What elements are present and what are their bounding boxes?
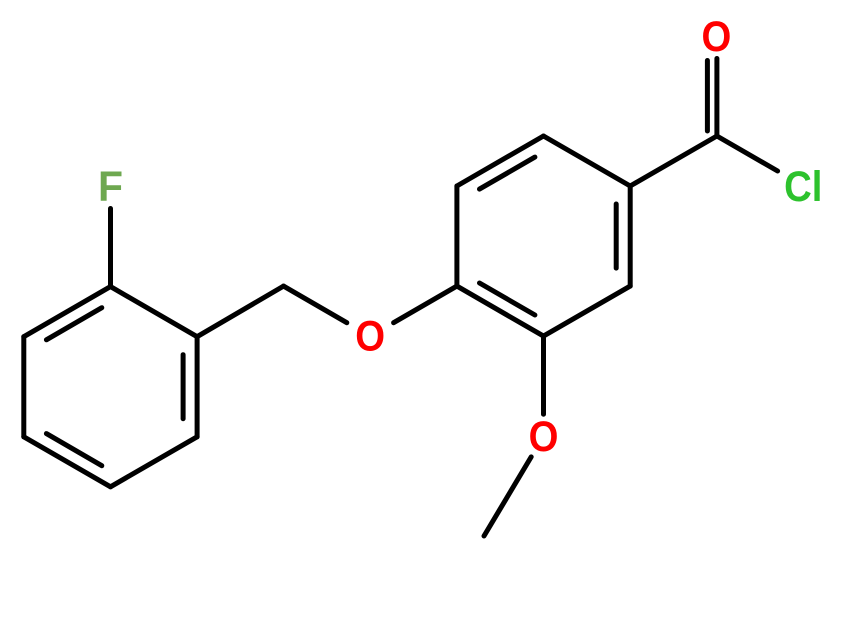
bond C2'-F: [108, 209, 113, 287]
bond C1-carbonyl C: [630, 136, 717, 186]
svg-text:Cl: Cl: [784, 164, 822, 211]
bond C=O1 second line of double bond: [705, 61, 710, 132]
bond C5-C6: [457, 136, 544, 186]
bond O3-CH3 (methyl of methoxy): [484, 457, 531, 536]
bond C3=C4 inner double line: [480, 283, 535, 315]
bond C5'-C6' (left ring, bottom-right edge): [111, 437, 198, 487]
bond C6'=C1' inner double line: [181, 355, 186, 419]
svg-text:O: O: [702, 14, 732, 61]
bond C4-O2 (ether oxygen): [394, 286, 457, 323]
bond C1'-C2' (left ring, top-right edge): [111, 287, 198, 337]
bond C3-O3 (methoxy oxygen, vertical): [541, 336, 546, 414]
bond C=O1 main line (vertical, carbonyl): [714, 59, 719, 137]
bond carbonyl C-Cl: [717, 136, 778, 171]
bond O2-CH2 (benzylic methylene): [284, 286, 347, 323]
bond C2'=C3' inner double line: [46, 308, 101, 340]
bond C5=C6 inner double line: [480, 157, 535, 189]
bond C1-C2 (right ring, right vertical edge): [628, 186, 633, 286]
bond C1=C2 inner double line: [614, 204, 619, 268]
bond C2'-C3' (left ring, top-left edge): [24, 287, 111, 337]
bond C4'-C5' (left ring, bottom-left edge): [24, 437, 111, 487]
bond C4-C5 (right ring, left vertical edge): [454, 186, 459, 286]
bond C3-C4: [457, 286, 544, 336]
bond C6'-C1' (left ring, right vertical edge): [195, 337, 200, 437]
bond C4'=C5' inner double line: [46, 434, 101, 466]
svg-text:F: F: [98, 164, 123, 211]
svg-text:O: O: [355, 314, 385, 361]
bond C6-C1: [544, 136, 631, 186]
bond C3'-C4' (left ring, left vertical edge): [21, 337, 26, 437]
bond CH2-C1' (to fluorophenyl ring): [197, 286, 283, 337]
svg-text:O: O: [529, 414, 559, 461]
bond C2-C3: [544, 286, 631, 336]
